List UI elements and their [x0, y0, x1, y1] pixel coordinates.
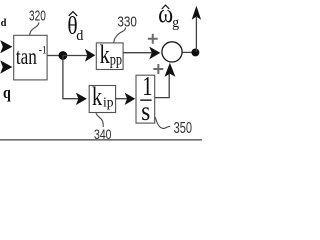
block integrator 1/s (350): [136, 75, 155, 123]
node theta_d (junction dot): [59, 51, 68, 60]
wire node to k_pp: [63, 55, 88, 57]
leader 330: [114, 28, 126, 43]
svg-text:q: q: [3, 84, 11, 102]
svg-text:d: d: [1, 18, 7, 29]
svg-text:s: s: [141, 97, 150, 126]
svg-text:ω: ω: [158, 0, 173, 29]
arrowhead up into summing junction: [165, 63, 176, 77]
arrowhead into k_pp: [85, 49, 95, 62]
svg-text:pp: pp: [110, 51, 122, 69]
svg-text:d: d: [76, 28, 83, 44]
plus sign (upper input): [148, 34, 158, 44]
fraction bar: [140, 99, 151, 101]
svg-text:330: 330: [117, 14, 136, 31]
svg-text:k: k: [92, 83, 102, 112]
svg-text:350: 350: [174, 120, 193, 137]
leader 320: [30, 23, 39, 36]
summing junction circle: [162, 42, 182, 62]
wire integrator output up to summing junction: [155, 74, 169, 98]
svg-text:ip: ip: [103, 95, 114, 110]
arrowhead into integrator: [125, 93, 136, 105]
label theta-hat d: [67, 12, 83, 45]
wire output upward: [195, 17, 197, 52]
input arrowhead e_d: [0, 40, 12, 53]
input arrowhead e_q: [0, 60, 12, 73]
bottom rule: [0, 139, 202, 141]
svg-text:k: k: [100, 41, 110, 70]
wire k_pp to summing junction: [123, 52, 152, 54]
block tan-1 (320): [14, 35, 47, 80]
node omega_g (junction dot): [191, 48, 199, 56]
label omega-hat g: [158, 0, 179, 31]
wire node down to k_ip: [63, 56, 80, 99]
svg-text:-1: -1: [39, 43, 47, 56]
svg-text:320: 320: [29, 7, 46, 24]
arrowhead into k_ip: [76, 93, 87, 105]
arrowhead into summing junction: [149, 47, 160, 60]
block k_pp (330): [96, 43, 123, 70]
plus sign (lower input): [153, 64, 163, 74]
svg-text:g: g: [172, 15, 179, 32]
leader 350: [155, 117, 170, 128]
wire k_ip to integrator: [116, 98, 128, 100]
wire tan-1 output to node: [47, 55, 63, 57]
wire summing junction to output node: [183, 51, 195, 53]
leader 340: [96, 113, 103, 127]
block k_ip (340): [89, 86, 115, 113]
svg-text:tan: tan: [16, 44, 37, 69]
arrowhead output up: [192, 6, 201, 20]
